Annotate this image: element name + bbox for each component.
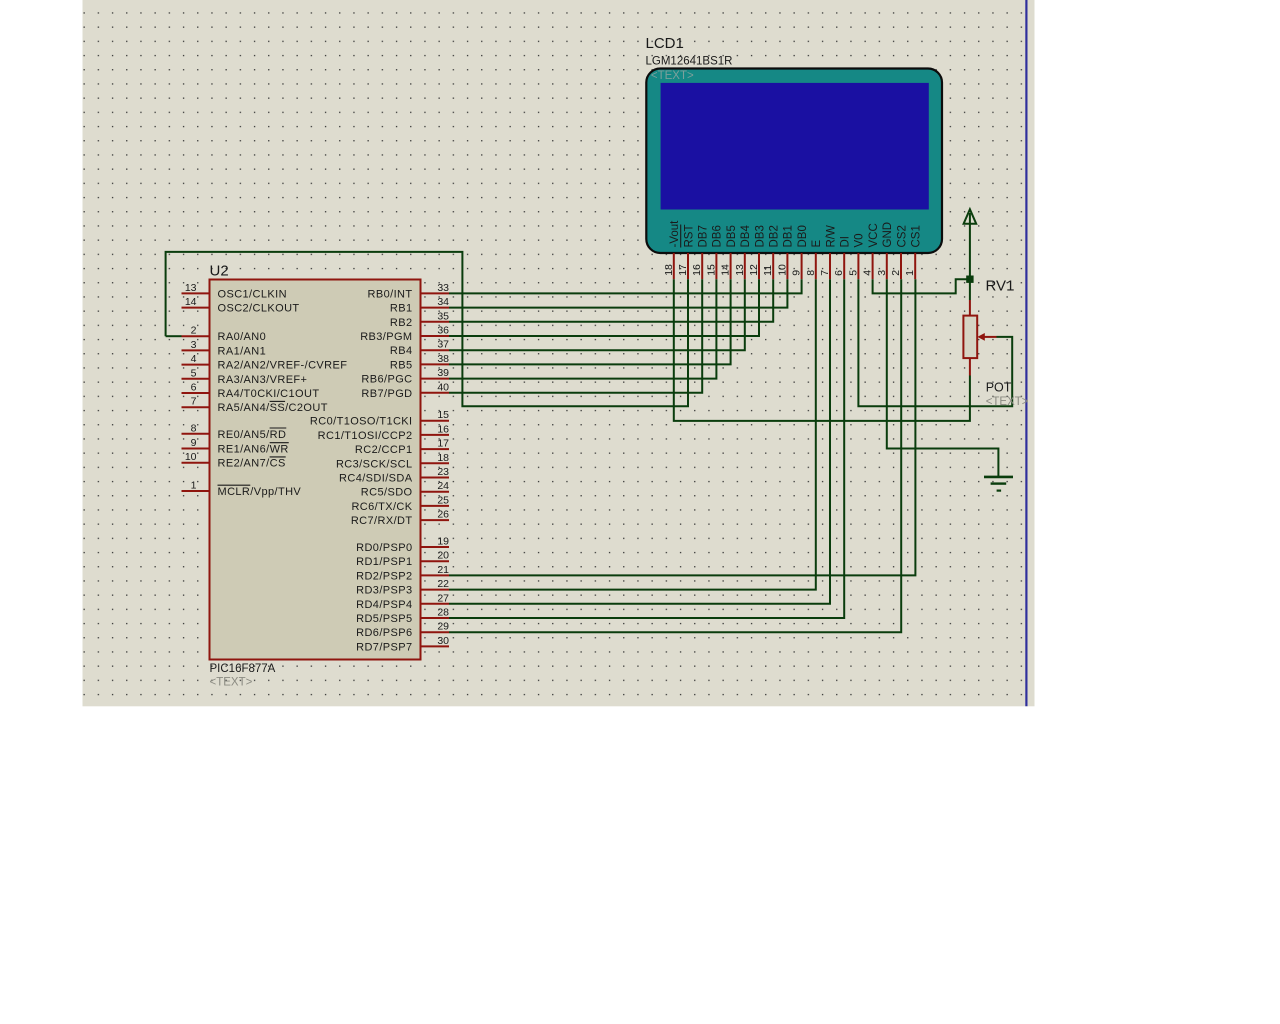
wire LCD V0 to RV1 wiper [858,279,1012,406]
svg-text:RC5/SDO: RC5/SDO [361,487,413,499]
U2 left pin stubs [182,293,210,491]
svg-text:U2: U2 [210,263,229,280]
ground symbol [984,477,1013,491]
svg-text:RD6/PSP6: RD6/PSP6 [356,627,412,639]
svg-text:33: 33 [437,282,449,294]
svg-text:10: 10 [776,264,788,276]
wire RD2 to LCD CS1 [449,279,915,575]
svg-text:RE2/AN7/CS: RE2/AN7/CS [218,458,286,470]
svg-text:14: 14 [720,264,732,276]
svg-text:17: 17 [677,264,689,276]
RV1 bottom pin [969,358,971,375]
svg-text:DB4: DB4 [740,225,752,248]
wire RB5 to LCD DB5 [449,279,731,364]
wire RD5 to LCD DI [449,279,844,618]
U2 value label PIC16F877A [210,663,276,675]
svg-text:9: 9 [191,437,197,449]
wire RD4 to LCD R/W [449,279,830,604]
wire RB6 to LCD DB6 [449,279,716,378]
svg-text:18: 18 [437,452,449,464]
svg-text:RC1/T1OSI/CCP2: RC1/T1OSI/CCP2 [318,430,413,442]
svg-text:RC3/SCK/SCL: RC3/SCK/SCL [336,458,413,470]
svg-text:29: 29 [437,621,449,633]
svg-text:17: 17 [437,438,449,450]
wire RB3 to LCD DB3 [449,279,759,336]
svg-text:CS1: CS1 [911,225,923,247]
svg-text:6: 6 [191,382,197,394]
schematic canvas background [83,0,1035,706]
svg-text:RV1: RV1 [986,278,1015,295]
LCD1 pin numbers [663,264,916,276]
sheet edge line [1025,0,1027,706]
LCD1 value label LGM12641BS1R [646,55,733,67]
wire RB2 to LCD DB2 [449,279,773,322]
U2 left pin names [218,288,348,498]
svg-text:DB0: DB0 [797,225,809,247]
svg-text:MCLR/Vpp/THV: MCLR/Vpp/THV [218,486,302,498]
svg-text:RA3/AN3/VREF+: RA3/AN3/VREF+ [218,374,308,386]
svg-text:6: 6 [833,270,845,276]
svg-text:7: 7 [819,270,831,276]
U2 text placeholder [210,677,253,689]
svg-text:RE0/AN5/RD: RE0/AN5/RD [218,429,287,441]
svg-text:18: 18 [663,264,675,276]
svg-text:RD2/PSP2: RD2/PSP2 [356,570,412,582]
svg-text:5: 5 [191,367,197,379]
wire RA0 to LCD RST [166,252,688,406]
svg-text:RA2/AN2/VREF-/CVREF: RA2/AN2/VREF-/CVREF [218,360,348,372]
svg-text:<TEXT>: <TEXT> [651,70,694,82]
svg-text:26: 26 [437,509,449,521]
svg-text:12: 12 [748,264,760,276]
U2 reference label [210,263,229,280]
wire RD6 to LCD CS2 [449,279,901,632]
svg-text:16: 16 [437,423,449,435]
wire power symbol to RV1 top [969,213,971,300]
svg-text:E: E [811,240,823,248]
svg-text:2: 2 [890,270,902,276]
potentiometer RV1 body [963,316,977,359]
svg-text:8: 8 [191,422,197,434]
svg-text:RB6/PGC: RB6/PGC [361,374,412,386]
svg-text:VCC: VCC [868,223,880,247]
svg-text:DB3: DB3 [754,225,766,247]
RV1 text placeholder [986,396,1029,408]
svg-text:OSC2/CLKOUT: OSC2/CLKOUT [218,303,300,315]
svg-text:4: 4 [191,353,197,365]
wire RD3 to LCD E [449,279,816,589]
svg-text:CS2: CS2 [896,225,908,247]
svg-text:27: 27 [437,592,449,604]
svg-text:RST: RST [683,225,695,248]
svg-text:RB5: RB5 [390,359,413,371]
svg-text:RC6/TX/CK: RC6/TX/CK [351,501,412,513]
svg-text:RB1: RB1 [390,303,413,315]
RV1 wiper arrow [977,333,996,341]
svg-text:4: 4 [862,270,874,276]
svg-text:RA5/AN4/SS/C2OUT: RA5/AN4/SS/C2OUT [218,402,328,414]
svg-text:V0: V0 [854,233,866,247]
svg-text:-Vout: -Vout [669,220,681,248]
svg-text:<TEXT>: <TEXT> [210,677,253,689]
svg-text:36: 36 [437,325,449,337]
svg-text:21: 21 [437,564,449,576]
svg-text:DB5: DB5 [726,225,738,247]
svg-text:RB4: RB4 [390,345,413,357]
svg-text:24: 24 [437,480,449,492]
svg-text:7: 7 [191,396,197,408]
svg-text:20: 20 [437,550,449,562]
LCD1 pin stubs [674,253,915,279]
svg-text:RC2/CCP1: RC2/CCP1 [355,444,413,456]
svg-text:15: 15 [705,264,717,276]
svg-text:22: 22 [437,578,449,590]
svg-text:RA0/AN0: RA0/AN0 [218,331,267,343]
wire LCD VCC to power rail [873,279,970,293]
U2 right pin names [310,288,413,653]
svg-text:3: 3 [191,339,197,351]
svg-text:DB2: DB2 [769,225,781,247]
svg-text:DB6: DB6 [712,225,724,247]
RV1 reference label [986,278,1015,295]
LCD1 text placeholder [651,70,694,82]
svg-text:PIC16F877A: PIC16F877A [210,663,276,675]
svg-text:POT: POT [986,381,1012,395]
svg-text:RA4/T0CKI/C1OUT: RA4/T0CKI/C1OUT [218,388,320,400]
wire LCD -Vout to RV1 bottom [674,279,970,421]
svg-text:R/W: R/W [825,225,837,248]
svg-text:11: 11 [762,265,774,276]
LCD display LCD1 body [646,69,942,254]
svg-text:25: 25 [437,494,449,506]
svg-text:GND: GND [882,222,894,248]
LCD1 screen area [661,83,929,210]
svg-text:RC0/T1OSO/T1CKI: RC0/T1OSO/T1CKI [310,416,413,428]
svg-text:RD1/PSP1: RD1/PSP1 [356,556,412,568]
U2 right pin numbers [437,282,449,647]
svg-text:8: 8 [805,270,817,276]
microcontroller U2 body [210,280,421,660]
svg-text:RB3/PGM: RB3/PGM [360,331,412,343]
svg-text:RD5/PSP5: RD5/PSP5 [356,613,412,625]
svg-text:39: 39 [437,367,449,379]
svg-text:40: 40 [437,381,449,393]
svg-text:1: 1 [191,480,197,492]
U2 right pin stubs [421,293,450,646]
svg-text:RC4/SDI/SDA: RC4/SDI/SDA [339,473,413,485]
svg-text:1: 1 [904,270,916,276]
svg-text:LCD1: LCD1 [646,35,684,52]
svg-text:34: 34 [437,296,449,308]
RV1 value label POT [986,381,1012,395]
wire LCD GND to ground [887,279,999,477]
junction node at power rail [966,276,973,283]
svg-text:RB0/INT: RB0/INT [368,288,413,300]
svg-text:RC7/RX/DT: RC7/RX/DT [351,515,413,527]
svg-text:30: 30 [437,635,449,647]
svg-text:DB7: DB7 [698,225,710,247]
svg-text:RB7/PGD: RB7/PGD [361,388,412,400]
svg-text:RE1/AN6/WR: RE1/AN6/WR [218,444,289,456]
svg-text:23: 23 [437,466,449,478]
svg-text:13: 13 [185,282,197,294]
svg-text:9: 9 [791,270,803,276]
svg-text:19: 19 [437,536,449,548]
RV1 top pin [969,300,971,316]
power symbol VCC arrow [964,209,977,223]
svg-text:28: 28 [437,607,449,619]
svg-text:LGM12641BS1R: LGM12641BS1R [646,55,733,67]
svg-text:16: 16 [691,264,703,276]
svg-text:RD4/PSP4: RD4/PSP4 [356,599,412,611]
svg-text:14: 14 [185,296,197,308]
svg-text:5: 5 [847,270,859,276]
LCD1 pin names [669,220,922,248]
svg-text:<TEXT>: <TEXT> [986,396,1029,408]
svg-text:2: 2 [191,325,197,337]
svg-text:OSC1/CLKIN: OSC1/CLKIN [218,288,287,300]
svg-text:RD7/PSP7: RD7/PSP7 [356,641,412,653]
svg-text:3: 3 [876,270,888,276]
svg-text:DI: DI [840,236,852,248]
wire RB1 to LCD DB1 [449,279,787,307]
svg-text:15: 15 [437,409,449,421]
svg-text:38: 38 [437,353,449,365]
svg-text:DB1: DB1 [783,225,795,247]
svg-text:RA1/AN1: RA1/AN1 [218,345,267,357]
wire RB0 to LCD DB0 [449,279,802,293]
wire RB7 to LCD DB7 [449,279,702,393]
svg-text:RD0/PSP0: RD0/PSP0 [356,542,412,554]
svg-text:35: 35 [437,310,449,322]
svg-text:10: 10 [185,451,197,463]
svg-text:37: 37 [437,339,449,351]
U2 left pin numbers [185,282,197,492]
svg-text:RB2: RB2 [390,317,413,329]
LCD1 reference label [646,35,684,52]
wire RB4 to LCD DB4 [449,279,745,350]
svg-text:RD3/PSP3: RD3/PSP3 [356,585,412,597]
svg-text:13: 13 [734,264,746,276]
